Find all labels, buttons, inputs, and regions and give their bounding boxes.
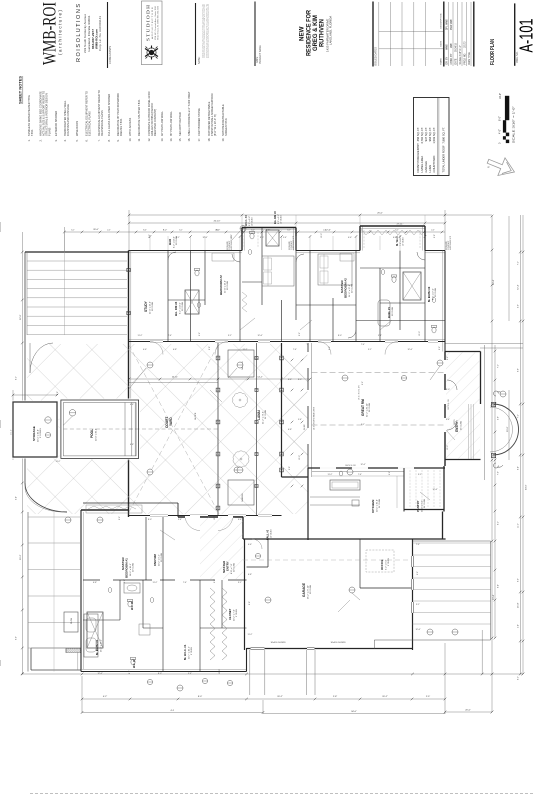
door arc courtyard NW (30, 343, 53, 373)
bath fixtures bedroom wing (185, 290, 199, 314)
svg-text:WMB: WMB (447, 44, 449, 50)
svg-text:S T U D I O D H: S T U D I O D H (146, 4, 151, 41)
svg-text:456 SQ. FT.: 456 SQ. FT. (416, 127, 420, 142)
master bath fixtures (87, 612, 103, 648)
svg-text:CLOS: CLOS (71, 618, 73, 624)
M.W.I.C. jut block (359, 226, 361, 251)
svg-text:9' CLNG: 9' CLNG (236, 609, 238, 617)
svg-text:DWG TITLE: DWG TITLE (469, 52, 471, 65)
graphic scale bar (499, 93, 516, 144)
svg-text:14'-2": 14'-2" (257, 377, 263, 379)
interior tick rows (149, 235, 152, 238)
courtyard slope diagonals (129, 345, 218, 512)
svg-text:7'-4": 7'-4" (168, 335, 172, 337)
consultants divider rule (107, 2, 109, 68)
svg-text:9'-0": 9'-0" (16, 636, 18, 640)
svg-text:8'-6" x 17'-0": 8'-6" x 17'-0" (432, 288, 434, 300)
svg-text:10' CLNG: 10' CLNG (392, 307, 394, 316)
svg-text:LIVING AREA: LIVING AREA (420, 156, 424, 173)
svg-text:26'-10": 26'-10" (214, 221, 221, 223)
svg-text:BEDROOM #1: BEDROOM #1 (124, 558, 128, 578)
svg-text:2'-5": 2'-5" (426, 696, 431, 698)
svg-text:10' CLNG: 10' CLNG (403, 237, 405, 246)
svg-text:8'-0": 8'-0" (446, 389, 450, 391)
wic shelving dashes (243, 232, 245, 248)
svg-text:5'-4": 5'-4" (178, 519, 182, 521)
svg-text:Winter Haven, FL 33880 863.29: Winter Haven, FL 33880 863.294.3340 (157, 6, 160, 40)
svg-text:8'-2": 8'-2" (163, 230, 168, 232)
svg-text:SHELL CONCRETE at 2" TURF INSE: SHELL CONCRETE at 2" TURF INSET (187, 91, 191, 136)
svg-text:11.: 11. (137, 138, 141, 142)
extension lines above jut blocks (241, 215, 243, 228)
east wall great room (444, 251, 446, 352)
svg-text:8'-0": 8'-0" (148, 519, 152, 521)
svg-text:2'-2": 2'-2" (129, 670, 131, 674)
svg-text:2'-2": 2'-2" (431, 230, 435, 232)
svg-text:10' CLNG: 10' CLNG (435, 288, 437, 297)
svg-text:REGISTER COMPANY): REGISTER COMPANY) (153, 109, 157, 136)
svg-text:8'-4": 8'-4" (518, 466, 520, 470)
door arcs bedroom wing (168, 252, 176, 260)
svg-text:4'-6": 4'-6" (238, 519, 242, 521)
svg-text:3'-1": 3'-1" (176, 237, 180, 239)
svg-text:10' CLNG: 10' CLNG (227, 281, 229, 290)
svg-text:9'-2": 9'-2" (329, 346, 331, 350)
svg-text:964 SQ. FT.: 964 SQ. FT. (428, 127, 432, 142)
svg-text:12'-6": 12'-6" (257, 335, 262, 337)
svg-text:4.: 4. (63, 139, 67, 141)
svg-text:5'-4": 5'-4" (298, 419, 302, 421)
W.I.C.#3 / BA.RM#2 jut block (241, 228, 243, 251)
svg-text:7,880 SQ. FT.: 7,880 SQ. FT. (441, 127, 445, 144)
svg-text:BA. RM #2: BA. RM #2 (273, 211, 277, 224)
svg-text:7'-4": 7'-4" (293, 349, 297, 351)
svg-text:11'-2": 11'-2" (56, 461, 61, 463)
svg-text:5.: 5. (75, 139, 79, 141)
svg-text:DECORATIVE SHUTTER T.B.D.: DECORATIVE SHUTTER T.B.D. (137, 99, 141, 136)
svg-text:KITCHEN: KITCHEN (371, 500, 375, 513)
svg-text:12'-6": 12'-6" (432, 489, 437, 491)
svg-text:36" HIGH LOW WALL: 36" HIGH LOW WALL (169, 111, 173, 136)
svg-text:16'x8'0 OH DRS: 16'x8'0 OH DRS (270, 642, 286, 644)
svg-text:6'-0": 6'-0" (518, 304, 520, 308)
svg-text:(8'-0" W x 10'-0" H): (8'-0" W x 10'-0" H) (213, 114, 217, 136)
svg-text:10' CLNG: 10' CLNG (310, 585, 312, 594)
courtyard / deck tile hatch (27, 344, 308, 514)
svg-text:SLOPE: SLOPE (195, 412, 197, 420)
svg-text:T.B.D.: T.B.D. (30, 129, 34, 136)
svg-text:1,503 SQ. FT.: 1,503 SQ. FT. (432, 127, 436, 144)
svg-text:10' CLNG: 10' CLNG (352, 284, 354, 293)
svg-text:R O I S O L U T I O N S: R O I S O L U T I O N S (76, 3, 82, 62)
sheet bottom edge artifact (30, 793, 533, 795)
svg-text:5'-4": 5'-4" (188, 673, 192, 675)
svg-text:PANTRY: PANTRY (416, 500, 420, 512)
svg-text:FRONT PORCH/ENTRY: FRONT PORCH/ENTRY (416, 143, 420, 173)
svg-text:A-101: A-101 (517, 19, 533, 53)
svg-text:M. BATH #1: M. BATH #1 (95, 639, 99, 655)
svg-text:3'-1": 3'-1" (395, 230, 399, 232)
svg-text:PROJECT NAME: PROJECT NAME (259, 45, 262, 64)
pantry shelving (409, 470, 411, 507)
svg-text:25'-0": 25'-0" (377, 213, 383, 215)
svg-text:3'-1": 3'-1" (238, 582, 242, 584)
svg-text:( a r c h i t e c t u r e ): ( a r c h i t e c t u r e ) (58, 9, 63, 55)
svg-text:BAR: BAR (168, 238, 172, 245)
kitchen north wall (308, 467, 445, 469)
svg-text:YARD: YARD (169, 417, 173, 426)
drawing info block (444, 2, 474, 67)
svg-text:JMB: JMB (451, 43, 453, 48)
svg-text:27'-11": 27'-11" (397, 224, 404, 226)
svg-text:9'-2": 9'-2" (199, 332, 201, 336)
svg-text:BA. RM #3: BA. RM #3 (174, 301, 178, 316)
svg-text:DR. BY: DR. BY (447, 56, 449, 64)
svg-text:4'-6": 4'-6" (348, 237, 352, 239)
svg-text:15'-0" x 12'-2": 15'-0" x 12'-2" (100, 639, 102, 652)
north arrow (484, 152, 518, 180)
svg-text:DESCRIPTION: DESCRIPTION (441, 13, 443, 28)
svg-text:20'-2": 20'-2" (277, 696, 283, 698)
svg-text:16.: 16. (187, 138, 191, 142)
revision table (issued dates) (373, 2, 444, 67)
svg-text:20'-2": 20'-2" (382, 696, 388, 698)
interior partitions bedroom wing (167, 251, 169, 342)
svg-text:MARK: MARK (440, 58, 443, 65)
svg-text:8'-4": 8'-4" (497, 584, 499, 588)
pool (61, 400, 139, 458)
svg-text:2'-2": 2'-2" (439, 346, 441, 350)
louvered trellis area upper-left (25, 251, 129, 253)
svg-text:NEW: NEW (299, 26, 306, 41)
svg-text:8'-2": 8'-2" (518, 676, 520, 680)
small leader arrows texture (240, 318, 255, 330)
svg-text:20'-0": 20'-0" (465, 710, 471, 712)
svg-text:GARDEN: GARDEN (241, 493, 244, 502)
svg-text:WMB-ROI.com: WMB-ROI.com (95, 29, 99, 49)
svg-text:LANAI: LANAI (428, 164, 432, 172)
svg-text:PLANS: PLANS (48, 127, 52, 136)
svg-text:8.: 8. (107, 139, 111, 141)
svg-text:18173: 18173 (465, 41, 467, 48)
svg-text:11'-2": 11'-2" (518, 523, 520, 528)
svg-text:11'-2": 11'-2" (243, 349, 248, 351)
svg-text:11'-2": 11'-2" (153, 582, 158, 584)
svg-text:FULL GLASS ENCLOSED SHOWER: FULL GLASS ENCLOSED SHOWER (107, 94, 111, 136)
svg-text:STORAGE: STORAGE (32, 426, 36, 441)
svg-text:30'-2": 30'-2" (20, 554, 22, 560)
svg-text:NOTE:: NOTE: (198, 56, 201, 64)
beds bedroom wing (262, 256, 294, 286)
svg-text:CAST BORDER STONE: CAST BORDER STONE (197, 108, 201, 136)
svg-text:6'-4": 6'-4" (16, 496, 18, 500)
svg-text:4'-6": 4'-6" (143, 349, 147, 351)
svg-text:LAKELAND, FLORIDA: LAKELAND, FLORIDA (328, 16, 332, 45)
entry porch curve (493, 404, 519, 455)
svg-text:6'-8": 6'-8" (248, 574, 252, 576)
svg-text:5'-4": 5'-4" (283, 237, 287, 239)
svg-text:8'-0": 8'-0" (158, 673, 162, 675)
date and project-name field rule (254, 2, 256, 67)
svg-text:9'-2": 9'-2" (362, 381, 364, 385)
svg-text:CLOSET: CLOSET (228, 608, 232, 620)
svg-text:FOUNTAIN AND CONSOLE: FOUNTAIN AND CONSOLE (66, 104, 70, 136)
svg-text:8'-0": 8'-0" (499, 116, 502, 121)
keyed note symbols (237, 362, 243, 368)
svg-text:7'-4": 7'-4" (183, 582, 187, 584)
svg-text:2'-8": 2'-8" (209, 346, 211, 350)
svg-text:4'-0": 4'-0" (499, 129, 502, 134)
svg-text:3'-1": 3'-1" (179, 230, 183, 232)
svg-text:PROJ. NO.: PROJ. NO. (465, 53, 467, 65)
svg-text:11'-2": 11'-2" (328, 474, 333, 476)
sheet number rule (514, 3, 516, 65)
svg-text:FLOOR PLAN: FLOOR PLAN (490, 39, 496, 65)
tile hatch areas (200, 517, 243, 579)
floor plan (0, 210, 533, 794)
garden planter + trees (228, 350, 254, 377)
svg-text:HURRICANE SCR: HURRICANE SCR (449, 235, 452, 250)
svg-text:DATE: DATE (455, 58, 458, 64)
louvered trellis lower-left (27, 512, 29, 672)
title strip (40, 1, 333, 68)
svg-text:937 SQ. FT.: 937 SQ. FT. (424, 127, 428, 142)
svg-text:2'-8": 2'-8" (57, 391, 59, 395)
svg-text:HALL #1: HALL #1 (387, 307, 391, 318)
svg-text:14' CLNG: 14' CLNG (379, 499, 381, 508)
svg-text:A R C H I T E C T U R E: A R C H I T E C T U R E (151, 6, 154, 39)
svg-text:M. BATH #2: M. BATH #2 (427, 286, 431, 302)
svg-text:GARAGE: GARAGE (424, 161, 428, 173)
svg-text:16'-0 x 8'-0 SL DR: 16'-0 x 8'-0 SL DR (359, 385, 361, 400)
svg-text:6'-2" x 13'-8": 6'-2" x 13'-8" (173, 236, 175, 248)
svg-text:13'-4": 13'-4" (493, 279, 495, 285)
svg-text:10'-0": 10'-0" (321, 233, 323, 238)
svg-text:6'-2" x 13'-0": 6'-2" x 13'-0" (179, 302, 181, 314)
svg-text:8'-0": 8'-0" (338, 335, 342, 337)
top dimension strings (129, 214, 445, 216)
svg-text:32'-0": 32'-0" (20, 314, 22, 320)
svg-text:9'-2": 9'-2" (216, 230, 221, 232)
svg-text:SCALE 3/16" = 1'-0": SCALE 3/16" = 1'-0" (512, 106, 516, 143)
svg-text:8'-0": 8'-0" (143, 230, 147, 232)
svg-text:10'-0": 10'-0" (447, 445, 449, 450)
svg-text:GREAT RM: GREAT RM (361, 399, 365, 416)
svg-text:5'-4": 5'-4" (446, 419, 450, 421)
svg-text:16070 SL DR: 16070 SL DR (345, 465, 356, 467)
svg-text:6'-8": 6'-8" (130, 444, 134, 446)
svg-text:16'x8'0 OH DRS: 16'x8'0 OH DRS (330, 642, 346, 644)
exterior walls : bedroom wing (129, 250, 243, 252)
outdoor equipment room SW (30, 648, 32, 670)
svg-text:20'-0": 20'-0" (507, 426, 509, 432)
svg-text:7'-2": 7'-2" (518, 414, 520, 418)
svg-text:6'-8": 6'-8" (288, 429, 292, 431)
svg-text:N: N (487, 166, 491, 168)
svg-text:6.: 6. (85, 139, 89, 141)
svg-text:8'-2": 8'-2" (497, 521, 499, 525)
svg-text:2'-2": 2'-2" (447, 356, 449, 360)
svg-text:3'-1": 3'-1" (368, 349, 372, 351)
svg-text:13.: 13. (160, 138, 164, 142)
svg-text:2'-8": 2'-8" (289, 466, 291, 470)
west wall bedroom wing / courtyard (128, 251, 130, 401)
door arcs south wall (150, 342, 163, 355)
svg-text:3'-1": 3'-1" (361, 424, 365, 426)
svg-text:14' CLNG: 14' CLNG (424, 499, 426, 508)
lanai south wall (129, 515, 282, 517)
svg-text:12'-6": 12'-6" (325, 230, 331, 232)
svg-text:2'-8": 2'-8" (434, 234, 436, 238)
svg-text:UNIV RM: UNIV RM (153, 554, 157, 566)
svg-text:2'-2": 2'-2" (119, 516, 121, 520)
svg-text:6'-8": 6'-8" (497, 416, 499, 420)
svg-text:RAILING T.B.D.: RAILING T.B.D. (119, 118, 123, 136)
svg-text:8'-0": 8'-0" (198, 696, 203, 698)
svg-text:BEDROOM #2: BEDROOM #2 (219, 275, 223, 295)
svg-text:SHEET NOTES: SHEET NOTES (19, 76, 23, 104)
svg-text:7'-2": 7'-2" (518, 261, 520, 265)
svg-text:W.C. #2: W.C. #2 (131, 601, 134, 610)
svg-text:BEDROOM #2: BEDROOM #2 (344, 278, 348, 298)
svg-text:10.: 10. (128, 138, 132, 142)
svg-text:7.: 7. (97, 139, 101, 141)
svg-text:23'-4": 23'-4" (493, 594, 495, 600)
svg-text:12'-6": 12'-6" (415, 629, 420, 631)
south wall bedroom wing (129, 341, 446, 343)
svg-text:10'-0": 10'-0" (214, 515, 216, 520)
svg-text:OFFICE: OFFICE (380, 559, 384, 570)
svg-text:ATTIC ACCESS: ATTIC ACCESS (128, 117, 132, 136)
svg-text:SECURITY KEYPAD: SECURITY KEYPAD (178, 112, 182, 136)
svg-text:WINE ROOM: WINE ROOM (75, 121, 79, 136)
svg-text:10' CLNG: 10' CLNG (281, 215, 283, 224)
svg-text:2'-8": 2'-8" (124, 579, 126, 583)
svg-text:TOTAL UNDER ROOF: TOTAL UNDER ROOF (441, 145, 445, 172)
svg-text:DPL WMB: DPL WMB (447, 19, 449, 30)
right dimension strings (491, 216, 493, 712)
svg-text:HALL #3: HALL #3 (267, 529, 270, 540)
entry interior steps (468, 404, 470, 459)
svg-text:8'-0": 8'-0" (298, 379, 302, 381)
svg-text:SCREEN T.B.D.: SCREEN T.B.D. (224, 117, 228, 136)
left dimension column (21, 232, 23, 674)
courtyard dim string (129, 378, 310, 380)
bottom dimension strings (82, 698, 445, 700)
svg-text:7'-2": 7'-2" (497, 364, 499, 368)
storage dim ticks (13, 394, 57, 396)
svg-text:9'-6": 9'-6" (518, 578, 520, 582)
svg-text:12'-6": 12'-6" (360, 464, 365, 466)
svg-text:DATE: DATE (440, 40, 443, 46)
consultant box STUDIO DH (142, 1, 163, 65)
area tabulation table (414, 98, 450, 176)
svg-text:24'-11": 24'-11" (172, 377, 179, 379)
svg-text:11'-2": 11'-2" (138, 335, 143, 337)
svg-text:94'-0": 94'-0" (526, 484, 528, 490)
svg-text:5'-4": 5'-4" (518, 624, 520, 628)
svg-text:BROUGHT TO THE NOTICE OF WMB-R: BROUGHT TO THE NOTICE OF WMB-ROI PRIOR T… (208, 4, 210, 58)
svg-text:17.: 17. (197, 138, 201, 142)
svg-text:10'-0": 10'-0" (299, 455, 301, 460)
storage room (13, 402, 57, 457)
porch scrolls (494, 391, 503, 396)
garage (243, 538, 413, 540)
svg-text:3'-1": 3'-1" (416, 604, 420, 606)
note disclaimer rule and text (195, 3, 197, 65)
svg-text:12'-6": 12'-6" (407, 349, 412, 351)
svg-text:6'-8": 6'-8" (393, 237, 397, 239)
svg-text:6'-8": 6'-8" (173, 349, 177, 351)
master suite (80, 510, 82, 672)
svg-text:72'-4": 72'-4" (518, 284, 520, 290)
svg-text:M. W.I.C. #1: M. W.I.C. #1 (183, 644, 187, 660)
svg-text:7'-4": 7'-4" (361, 344, 365, 346)
svg-text:10' CLNG: 10' CLNG (271, 529, 273, 538)
svg-text:HURRICANE SCR: HURRICANE SCR (292, 235, 295, 250)
svg-text:2'-2": 2'-2" (231, 234, 233, 238)
overall bottom dim line (22, 673, 523, 675)
svg-text:6'-8": 6'-8" (93, 582, 97, 584)
motor court paving (413, 540, 491, 542)
svg-text:10' CLNG: 10' CLNG (152, 302, 154, 311)
svg-text:18.: 18. (207, 138, 211, 142)
svg-text:3.: 3. (54, 139, 58, 141)
svg-text:16' CLNG: 16' CLNG (369, 403, 371, 412)
svg-text:CONSULTANTS: CONSULTANTS (108, 46, 112, 64)
svg-text:94'-0": 94'-0" (351, 711, 357, 713)
svg-text:9'-2": 9'-2" (214, 579, 216, 583)
svg-text:11'-2": 11'-2" (248, 634, 253, 636)
svg-text:7'-0": 7'-0" (497, 471, 499, 475)
svg-text:9'-2": 9'-2" (389, 471, 391, 475)
svg-text:4'-6": 4'-6" (248, 544, 252, 546)
svg-text:7'-4": 7'-4" (358, 474, 362, 476)
svg-text:10' CLNG: 10' CLNG (252, 217, 254, 226)
svg-text:COURTYARD: COURTYARD (432, 156, 436, 173)
consultant crest logo (145, 46, 158, 60)
sheet notes header (19, 76, 229, 142)
svg-text:9.: 9. (116, 139, 120, 141)
svg-text:12.: 12. (147, 138, 151, 142)
svg-text:2'-2": 2'-2" (107, 230, 111, 232)
svg-text:10'-0": 10'-0" (419, 331, 421, 336)
curved garden wall (25, 483, 67, 512)
svg-text:2'-2": 2'-2" (299, 332, 301, 336)
svg-text:10' CLNG: 10' CLNG (182, 302, 184, 311)
svg-text:STUDY: STUDY (144, 300, 148, 312)
svg-text:3'-1": 3'-1" (71, 230, 75, 232)
driveway aprons (249, 650, 251, 695)
svg-text:14.: 14. (169, 138, 173, 142)
svg-text:5'-4": 5'-4" (378, 335, 382, 337)
svg-text:42" HIGH LOW WALL: 42" HIGH LOW WALL (160, 111, 164, 136)
svg-text:W.C. #1: W.C. #1 (133, 659, 136, 668)
svg-text:10'-0" x 30'-0": 10'-0" x 30'-0" (95, 428, 97, 441)
svg-text:7'-4": 7'-4" (416, 544, 420, 546)
svg-text:POOL: POOL (90, 429, 94, 438)
svg-text:9'-8": 9'-8" (518, 368, 520, 372)
svg-text:CHKD. BY: CHKD. BY (451, 53, 453, 64)
svg-text:ISSUED DATES: ISSUED DATES (374, 47, 378, 66)
master suite partitions (145, 517, 147, 580)
svg-text:4'-6": 4'-6" (288, 379, 292, 381)
svg-text:1.: 1. (27, 139, 31, 141)
svg-text:DWP JMB: DWP JMB (451, 19, 453, 30)
entry (445, 351, 481, 353)
svg-text:10' CLNG: 10' CLNG (132, 563, 134, 572)
svg-text:14' CLNG: 14' CLNG (265, 410, 267, 419)
